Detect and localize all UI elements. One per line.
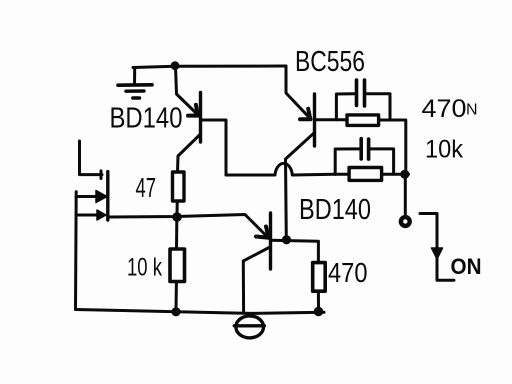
wire Q1 base run with hop bbox=[226, 163, 335, 175]
capacitor C2 plates bbox=[359, 139, 363, 159]
node A junction bbox=[172, 212, 182, 222]
node C junction (Q2 collector to Q3 base) bbox=[282, 235, 291, 244]
wire R1 to node A bbox=[176, 201, 179, 213]
switch arrow bbox=[432, 248, 443, 259]
transistor Q1 emitter arrow bbox=[196, 105, 198, 115]
svg-text:BC556: BC556 bbox=[295, 46, 365, 78]
transistor Q1 base bar bbox=[199, 93, 202, 143]
left device gate hook bbox=[80, 141, 103, 175]
wire switch lever bbox=[420, 214, 454, 281]
left device channel bar bbox=[106, 172, 109, 220]
transistor Q3 base bar bbox=[269, 213, 272, 269]
capacitor C1 right riser bbox=[367, 94, 391, 120]
svg-text:10 k: 10 k bbox=[127, 254, 162, 282]
left device gate tick bbox=[100, 171, 103, 179]
resistor R2 10k bbox=[170, 249, 185, 282]
wire RC2 to node B bbox=[382, 173, 409, 176]
wire R5 to rail bbox=[317, 291, 320, 308]
wire RC2 main left bbox=[335, 173, 349, 176]
svg-text:N: N bbox=[466, 102, 478, 119]
transistor Q2 emitter arrow bbox=[308, 109, 310, 119]
node supply junction bbox=[171, 61, 180, 70]
transistor Q1 collector lead bbox=[178, 135, 201, 173]
wire bottom rail bbox=[76, 310, 325, 314]
resistor R5 470 bbox=[313, 263, 326, 292]
node B junction bbox=[400, 170, 409, 179]
wire Q3 base to R5 bbox=[271, 240, 318, 262]
capacitor C2 left riser bbox=[335, 149, 359, 174]
svg-text:BD140: BD140 bbox=[110, 103, 183, 135]
wire node B down to terminal bbox=[404, 176, 407, 217]
transistor Q1 BD140 emitter lead bbox=[176, 66, 198, 115]
wire top rail from ground to BC556 bbox=[133, 66, 286, 68]
wire RC1 to right corner bbox=[379, 120, 406, 172]
source symbol chord bbox=[234, 324, 264, 327]
node rail junction bbox=[171, 307, 180, 316]
wire left vertical bbox=[74, 192, 78, 310]
transistor Q3 emitter arrow bbox=[266, 227, 268, 237]
left device arrow line 2 bbox=[76, 214, 97, 217]
capacitor C1 left riser bbox=[336, 94, 354, 120]
wire R2 to bottom rail bbox=[175, 282, 178, 313]
svg-text:BD140: BD140 bbox=[299, 194, 371, 226]
wire Q1 base to node bbox=[201, 120, 226, 175]
capacitor C2 right riser bbox=[371, 149, 394, 174]
transistor Q3 collector lead bbox=[243, 247, 270, 313]
svg-text:ON: ON bbox=[451, 254, 482, 279]
svg-text:47: 47 bbox=[136, 172, 157, 203]
wire left symbol to Q3 emitter bbox=[109, 215, 269, 239]
transistor Q2 BC556 emitter lead bbox=[286, 66, 310, 118]
transistor Q2 collector lead bbox=[286, 133, 315, 239]
resistor R3 (470n pair top) bbox=[347, 115, 379, 126]
wire Q2 base to RC1 bbox=[315, 118, 347, 121]
ground bbox=[118, 68, 152, 99]
terminal circle bbox=[401, 217, 410, 226]
svg-text:10k: 10k bbox=[425, 136, 463, 164]
wire node A to R2 bbox=[175, 221, 178, 249]
transistor Q2 base bar bbox=[313, 94, 316, 146]
node rail right junction bbox=[314, 307, 324, 317]
svg-text:470: 470 bbox=[328, 257, 368, 288]
resistor R4 (10k pair bottom) bbox=[349, 168, 382, 181]
left device arrow line 1 bbox=[76, 195, 96, 198]
capacitor C1 plates bbox=[355, 80, 359, 106]
svg-text:470: 470 bbox=[422, 95, 467, 123]
resistor R1 47 bbox=[173, 172, 185, 201]
source symbol circle bbox=[236, 316, 264, 338]
